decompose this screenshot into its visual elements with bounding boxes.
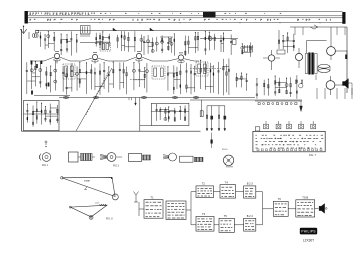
svg-text:FIG. 8: FIG. 8 bbox=[106, 218, 113, 221]
svg-text:snaar: snaar bbox=[84, 180, 90, 183]
svg-text:B 2 4: B 2 4 bbox=[247, 214, 254, 218]
svg-text:L2X30T: L2X30T bbox=[303, 239, 314, 243]
svg-text:FIG 1: FIG 1 bbox=[42, 164, 49, 167]
svg-text:FIG. 7: FIG. 7 bbox=[309, 153, 317, 157]
svg-text:FIG 3: FIG 3 bbox=[113, 165, 120, 168]
svg-text:B 2 3: B 2 3 bbox=[247, 182, 254, 186]
svg-text:FIG 6: FIG 6 bbox=[222, 149, 228, 151]
svg-text:TS-B: TS-B bbox=[302, 196, 308, 200]
svg-text:veer: veer bbox=[95, 202, 100, 205]
svg-text:PHILIPS: PHILIPS bbox=[301, 230, 316, 234]
